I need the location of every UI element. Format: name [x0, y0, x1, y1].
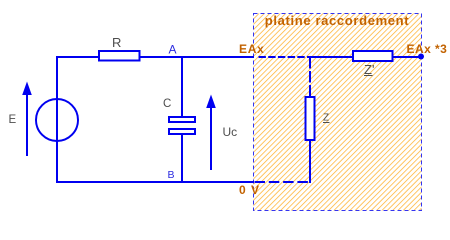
- branch to Z dashed: [309, 57, 311, 97]
- svg-text:E: E: [9, 114, 17, 126]
- wire solid to Z': [309, 56, 353, 58]
- wire Z' to output: [393, 56, 421, 58]
- label Z (underlined): [323, 113, 330, 124]
- svg-text:EAx: EAx: [239, 42, 264, 56]
- svg-text:A: A: [169, 43, 177, 57]
- svg-text:0 V: 0 V: [239, 183, 260, 197]
- node EAx*3 output dot: [418, 54, 424, 60]
- impedance Z': [353, 51, 393, 61]
- wire Z bottom: [309, 140, 311, 183]
- svg-text:R: R: [112, 35, 121, 50]
- wire left vertical: [56, 56, 58, 183]
- svg-text:C: C: [163, 98, 171, 110]
- voltage source E1: [36, 99, 78, 141]
- svg-text:B: B: [168, 169, 175, 181]
- Uc arrow: [206, 95, 216, 171]
- svg-text:Z: Z: [323, 113, 329, 124]
- label Z' (underlined): [364, 62, 374, 77]
- impedance Z: [306, 97, 315, 140]
- wire capacitor to B: [181, 134, 183, 183]
- E arrow: [22, 82, 32, 157]
- svg-text:Z': Z': [364, 62, 374, 77]
- svg-text:platine raccordement: platine raccordement: [265, 13, 410, 28]
- wire top (E to node A to box): [56, 56, 254, 58]
- platine raccordement box: [254, 14, 422, 211]
- capacitor C: [169, 117, 195, 134]
- wire dashed EAx inside box: [259, 56, 311, 58]
- node A wire branch: [181, 56, 183, 117]
- wire 0V dashed: [255, 181, 312, 183]
- svg-text:EAx *3: EAx *3: [407, 42, 448, 56]
- wire bottom (B line): [56, 181, 254, 183]
- resistor R: [99, 51, 140, 61]
- svg-text:Uc: Uc: [223, 125, 238, 139]
